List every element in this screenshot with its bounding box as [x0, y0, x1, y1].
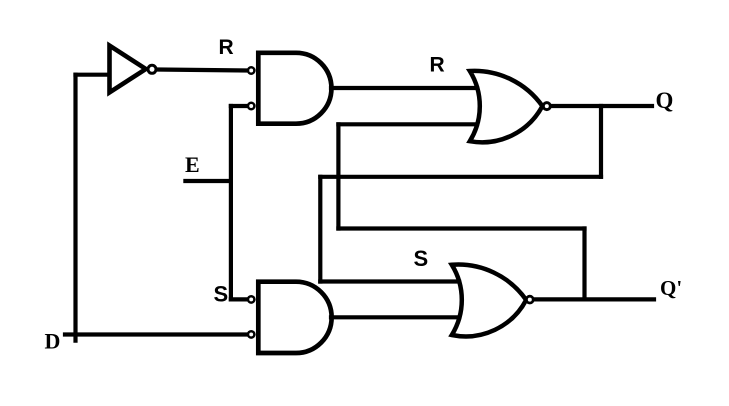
- wire: E to AND1 input 2: [231, 104, 247, 108]
- wire: Q' feedback vertical up: [336, 124, 340, 228]
- svg-text:S: S: [414, 246, 429, 271]
- AND G1 input bubble 2: [248, 103, 254, 109]
- wire: Q feedback vertical from output: [599, 106, 603, 177]
- AND G1 input bubble 1: [248, 67, 254, 73]
- svg-text:R: R: [219, 36, 234, 59]
- NOR G4 output bubble: [526, 296, 533, 303]
- AND gate G2 (bottom, inverted inputs): [258, 282, 331, 353]
- svg-text:R: R: [430, 54, 445, 77]
- wire: Q' feedback to NOR1 input 2: [338, 122, 477, 126]
- inverter U1 (NOT gate triangle): [110, 46, 146, 93]
- wire: Q feedback to NOR2 input 1: [320, 279, 459, 283]
- wire: NOR1 output to Q: [551, 104, 653, 108]
- wire: Q' feedback horizontal: [338, 226, 584, 230]
- wire: Q feedback vertical down: [318, 177, 322, 282]
- inverter U1 output bubble: [148, 65, 156, 73]
- wire: inverter output to AND1 input 1: [158, 70, 247, 71]
- AND G2 input bubble 1: [248, 296, 254, 302]
- NOR gate G3 (top): [470, 71, 543, 142]
- svg-text:E: E: [185, 152, 200, 177]
- wire: D branch vertical to inverter: [73, 75, 77, 341]
- wire: AND1 output to NOR1 input 1: [331, 86, 477, 90]
- wire: Q feedback horizontal: [320, 175, 601, 179]
- wire: Q' feedback vertical from output: [582, 229, 586, 300]
- svg-text:S: S: [214, 282, 229, 307]
- AND gate G1 (top, inverted inputs): [258, 53, 331, 124]
- wire: E to AND2 input 1: [231, 297, 247, 301]
- wire: AND2 output to NOR2 input 2: [331, 315, 459, 319]
- wire: E vertical: [229, 106, 233, 299]
- AND G2 input bubble 2: [248, 331, 254, 337]
- svg-text:Q': Q': [660, 276, 682, 300]
- svg-text:D: D: [45, 328, 61, 353]
- wire: E input stub: [185, 179, 231, 183]
- NOR G3 output bubble: [543, 103, 550, 110]
- NOR gate G4 (bottom): [452, 265, 526, 337]
- wire: NOR2 output to Q': [534, 297, 655, 301]
- wire: inverter input: [76, 73, 109, 77]
- svg-text:Q: Q: [656, 88, 674, 113]
- wire: D input horizontal: [65, 332, 247, 336]
